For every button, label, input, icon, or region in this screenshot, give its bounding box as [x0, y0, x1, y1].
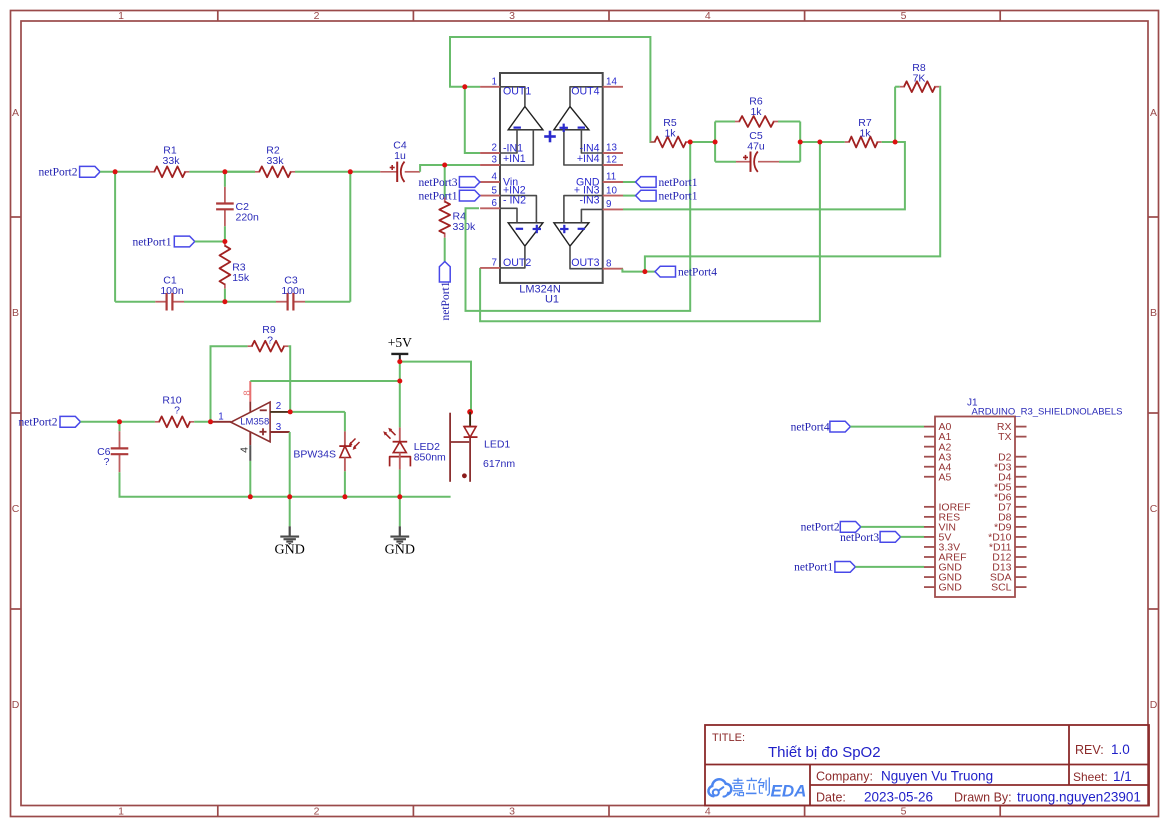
svg-text:33k: 33k: [163, 155, 181, 167]
R6C5 block left vertical: [714, 122, 716, 162]
svg-text:1.0: 1.0: [1111, 742, 1130, 757]
op-amp center plus sign: [544, 135, 556, 138]
svg-text:+5V: +5V: [388, 335, 412, 350]
U1 pin 1 OUT1: [480, 86, 500, 88]
svg-text:5: 5: [492, 185, 498, 196]
J1 pin A0 (left row 0): [924, 426, 935, 428]
svg-text:?: ?: [267, 335, 273, 347]
svg-text:GND: GND: [275, 543, 305, 558]
junction node V (+5V): [397, 359, 402, 364]
svg-text:33k: 33k: [267, 155, 285, 167]
svg-text:REV:: REV:: [1075, 743, 1104, 757]
svg-text:2: 2: [314, 806, 320, 818]
J1 pin D2 (right row 3): [1015, 456, 1027, 458]
capacitor C4 polarized: [380, 171, 397, 173]
U1 pin 6 - IN2: [480, 207, 500, 209]
junction node E (R2/C4): [348, 169, 353, 174]
svg-text:7: 7: [492, 258, 497, 269]
junction node J (block right): [798, 140, 803, 145]
LM358 pin 8 stub (V+): [249, 381, 251, 402]
svg-text:EDA: EDA: [771, 782, 807, 801]
svg-text:1: 1: [492, 77, 497, 88]
svg-text:D: D: [12, 699, 20, 711]
junction node A: [113, 169, 118, 174]
U1 pin 13 -IN4: [603, 152, 623, 154]
svg-text:1k: 1k: [750, 106, 762, 118]
svg-text:2: 2: [492, 143, 497, 154]
svg-text:2: 2: [276, 401, 281, 412]
wire +5V down: [399, 362, 401, 428]
resistor R3: [224, 242, 226, 247]
wire node B to R2: [225, 171, 255, 173]
capacitor C6: [119, 431, 121, 448]
svg-text:netPort4: netPort4: [678, 266, 717, 278]
op-amp C (OUT3) triangle: [554, 223, 589, 246]
wire pin8 to +5V rail: [250, 380, 399, 382]
wire pin2 to BPW34S: [290, 411, 345, 413]
netPort1 port (pin5 +IN2): [459, 190, 480, 201]
svg-text:A: A: [1150, 107, 1157, 119]
svg-text:2023-05-26: 2023-05-26: [864, 790, 933, 805]
op-amp D plus sign: [560, 127, 568, 129]
svg-text:1: 1: [218, 411, 223, 422]
svg-text:4: 4: [492, 172, 498, 183]
op-amp A (OUT1) triangle: [508, 107, 543, 130]
svg-text:47u: 47u: [747, 141, 765, 153]
svg-text:OUT4: OUT4: [571, 86, 599, 98]
netPort3 port (pin4 Vin): [459, 177, 480, 188]
svg-text:LED1: LED1: [484, 439, 510, 451]
resistor R1: [150, 171, 155, 173]
svg-text:Drawn By:: Drawn By:: [954, 791, 1012, 805]
resistor R2: [255, 171, 260, 173]
U1 pin 8 OUT3: [603, 268, 623, 270]
svg-text:B: B: [12, 307, 19, 319]
wire R9 right vertical to pin2: [288, 346, 290, 412]
J1 pin RX (right row 0): [1015, 426, 1027, 428]
U1 pin 5 +IN2: [480, 195, 500, 197]
svg-text:9: 9: [606, 199, 611, 210]
junction node T (pin4/rail): [248, 494, 253, 499]
op-amp B (OUT2) triangle: [508, 223, 543, 246]
ground symbol 2: [399, 497, 401, 527]
U1 pin 11 GND: [603, 181, 623, 183]
LM358 pin 2 stub: [270, 411, 290, 413]
resistor R10: [155, 421, 160, 423]
op-amp B minus sign: [516, 228, 523, 230]
wire node L to pin9 net: [623, 142, 905, 209]
wire netPort4 to A0: [850, 426, 924, 428]
netPort1 port (below R4, rotated): [439, 262, 450, 283]
svg-text:netPort1: netPort1: [133, 236, 172, 248]
J1 pin *D11 (right row 12): [1015, 546, 1027, 548]
netPort4 port (OUT3): [655, 266, 676, 277]
U1 pin 12 +IN4: [603, 164, 623, 166]
netPort1 port (pin10 +IN3): [623, 195, 636, 197]
svg-text:7K: 7K: [913, 73, 926, 85]
wire netPort2 to VIN: [861, 526, 924, 528]
J1 pin GND (left row 15): [924, 576, 935, 578]
J1 pin D12 (right row 13): [1015, 556, 1027, 558]
svg-text:netPort1: netPort1: [794, 562, 833, 574]
op-amp D (OUT4) triangle: [554, 107, 589, 130]
svg-text:OUT2: OUT2: [503, 257, 531, 269]
wire bottom rail left: [115, 301, 155, 303]
wire netPort1 to node: [195, 241, 225, 243]
svg-text:3: 3: [276, 422, 282, 433]
svg-text:D: D: [1150, 699, 1158, 711]
netPort1 port (pin11 GND): [623, 181, 636, 183]
capacitor C1: [155, 301, 166, 303]
J1 pin *D10 (right row 11): [1015, 536, 1027, 538]
J1 pin 3.3V (left row 12): [924, 546, 935, 548]
svg-text:14: 14: [606, 77, 617, 88]
J1 pin *D9 (right row 10): [1015, 526, 1027, 528]
resistor R8: [900, 86, 905, 88]
connector J1 body: [935, 417, 1015, 598]
netPort2 port (top left): [80, 166, 101, 177]
svg-text:10: 10: [606, 185, 617, 196]
svg-text:6: 6: [492, 198, 498, 209]
svg-text:617nm: 617nm: [483, 458, 515, 470]
wire LED2 to rail: [399, 470, 401, 497]
wire right vertical up: [349, 172, 351, 302]
junction node H (R5 right): [688, 140, 693, 145]
LED LED1: [467, 409, 473, 415]
svg-text:4: 4: [705, 806, 711, 818]
svg-text:?: ?: [174, 405, 180, 417]
junction node K (OUT2 feedback): [817, 140, 822, 145]
wire netPort2 to R1: [100, 171, 150, 173]
wire R6 top left: [715, 121, 735, 123]
resistor R5: [650, 141, 655, 143]
op-amp C plus sign: [560, 228, 568, 230]
svg-text:5: 5: [901, 806, 907, 818]
wire rail C3 to right vertical: [305, 301, 350, 303]
J1 pin VIN (left row 10): [924, 526, 935, 528]
wire C4 to +IN1 node: [420, 165, 480, 172]
wire netPort1 to GND: [855, 566, 924, 568]
wire left vertical down to C1 rail: [114, 172, 116, 302]
capacitor C2: [224, 187, 226, 204]
U1 pin 10 + IN3: [603, 195, 623, 197]
svg-text:LM358: LM358: [240, 417, 269, 428]
wire R6 top right: [778, 121, 800, 123]
svg-text:11: 11: [606, 172, 616, 183]
svg-text:Date:: Date:: [816, 791, 846, 805]
svg-text:Company:: Company:: [816, 770, 873, 784]
wire rail C1 to C3: [184, 301, 276, 303]
svg-text:ARDUINO_R3_SHIELDNOLABELS: ARDUINO_R3_SHIELDNOLABELS: [972, 407, 1123, 418]
resistor R6: [735, 121, 740, 123]
resistor R4: [444, 165, 446, 197]
J1 pin AREF (left row 13): [924, 556, 935, 558]
svg-text:C: C: [12, 503, 20, 515]
wire R1 to C2 node: [189, 171, 255, 173]
wire OUT1 feedback loop: [450, 37, 654, 142]
svg-text:+IN1: +IN1: [503, 153, 526, 165]
wire +5V to LED1: [400, 362, 471, 412]
junction node M (OUT3): [642, 269, 647, 274]
EasyEDA logo: [708, 779, 731, 796]
op-amp A minus sign: [514, 126, 521, 128]
svg-text:+IN4: +IN4: [577, 153, 600, 165]
J1 pin A1 (left row 1): [924, 436, 935, 438]
svg-text:netPort2: netPort2: [39, 167, 78, 179]
J1 pin A4 (left row 4): [924, 466, 935, 468]
J1 pin IOREF (left row 8): [924, 506, 935, 508]
J1 pin D8 (right row 9): [1015, 516, 1027, 518]
LM358 minus sign: [260, 409, 267, 411]
J1 pin SDA (right row 15): [1015, 576, 1027, 578]
J1 pin TX (right row 1): [1015, 436, 1027, 438]
svg-text:?: ?: [104, 456, 110, 468]
svg-text:850nm: 850nm: [414, 452, 446, 464]
svg-text:5: 5: [901, 10, 907, 22]
LED LED2: [399, 427, 401, 441]
U1 pin 14 OUT4: [603, 86, 623, 88]
op-amp C minus sign: [578, 228, 585, 230]
svg-text:100n: 100n: [281, 285, 305, 297]
wire node E to C4: [350, 171, 380, 173]
svg-text:B: B: [1150, 307, 1157, 319]
J1 pin *D3 (right row 4): [1015, 466, 1027, 468]
svg-text:netPort2: netPort2: [801, 522, 840, 534]
svg-text:Sheet:: Sheet:: [1073, 770, 1108, 784]
svg-text:1k: 1k: [859, 128, 871, 140]
resistor R7: [845, 141, 850, 143]
svg-text:A5: A5: [939, 471, 952, 483]
resistor R9: [248, 345, 253, 347]
svg-text:8: 8: [606, 258, 612, 269]
junction node I (block left): [713, 140, 718, 145]
junction node U (LED2/rail): [397, 494, 402, 499]
svg-text:330k: 330k: [453, 221, 477, 233]
LM358 pin 1 stub: [211, 421, 231, 423]
junction node G (pin1): [462, 84, 467, 89]
wire BPW34S top: [344, 412, 346, 432]
U1 pin 7 OUT2: [480, 267, 500, 269]
svg-text:GND: GND: [385, 543, 415, 558]
J1 pin SCL (right row 16): [1015, 586, 1027, 588]
svg-text:4: 4: [239, 447, 251, 453]
J1 pin *D6 (right row 7): [1015, 496, 1027, 498]
wire C6 bottom to rail: [120, 472, 156, 497]
svg-text:13: 13: [606, 143, 617, 154]
op-amp U1 chip body: [500, 73, 603, 283]
svg-text:SCL: SCL: [991, 582, 1012, 594]
junction node R (BPW34S/rail): [342, 494, 347, 499]
svg-text:BPW34S: BPW34S: [293, 449, 336, 461]
svg-text:netPort1: netPort1: [440, 281, 452, 320]
J1 pin RES (left row 9): [924, 516, 935, 518]
LM358 pin 4 stub (V-): [249, 432, 251, 445]
wire pin1 stub link: [465, 86, 480, 88]
wire C2 bottom to netPort1 node: [224, 226, 226, 241]
junction node B (R1/R2/C2): [222, 169, 227, 174]
svg-text:100n: 100n: [160, 285, 184, 297]
junction node S (pin3/rail): [287, 494, 292, 499]
wire R8 right to OUT3 net: [645, 87, 940, 272]
svg-text:OUT1: OUT1: [503, 86, 531, 98]
svg-text:netPort3: netPort3: [840, 532, 879, 544]
op-amp U2 LM358 triangle: [231, 402, 270, 442]
wire C5 bottom left: [715, 161, 736, 163]
svg-text:1k: 1k: [664, 128, 676, 140]
netPort1 port (mid left): [174, 236, 195, 247]
svg-text:Thiết bị đo SpO2: Thiết bị đo SpO2: [768, 744, 881, 761]
capacitor C3: [276, 301, 288, 303]
svg-text:1/1: 1/1: [1113, 769, 1132, 784]
wire netPort2 to R10: [81, 421, 155, 423]
svg-text:4: 4: [705, 10, 711, 22]
J1 pin A2 (left row 2): [924, 446, 935, 448]
wire netPort3 to 5V: [901, 536, 924, 538]
wire pin3 down to rail: [289, 432, 291, 497]
svg-text:1: 1: [118, 806, 124, 818]
wire block to node K: [800, 141, 820, 143]
J1 pin GND (left row 14): [924, 566, 935, 568]
svg-text:Nguyen Vu Truong: Nguyen Vu Truong: [881, 769, 993, 784]
wire R7 to node L: [882, 141, 895, 143]
svg-text:-IN3: -IN3: [579, 195, 599, 207]
svg-text:1u: 1u: [394, 150, 406, 162]
op-amp D minus sign: [578, 126, 585, 128]
J1 pin GND (left row 16): [924, 586, 935, 588]
wire pin6 net vertical: [466, 142, 691, 311]
junction node D (R3/rail): [222, 299, 227, 304]
netPort2 port (LM358 input): [60, 416, 81, 427]
wire C6 top: [119, 422, 121, 431]
J1 pin D7 (right row 8): [1015, 506, 1027, 508]
wire OUT2 net: [480, 142, 820, 321]
svg-text:TX: TX: [998, 431, 1011, 443]
wire OUT3 to netPort4: [622, 269, 655, 272]
LM358 pin 3 stub: [270, 431, 290, 433]
junction node N (C6): [117, 419, 122, 424]
svg-text:15k: 15k: [232, 272, 250, 284]
U1 pin 4 Vin: [480, 181, 500, 183]
U1 pin 9 -IN3: [603, 208, 623, 210]
wire ground rail: [155, 496, 451, 498]
junction node O (R9/R10/pin1): [208, 419, 213, 424]
U1 pin 2 -IN1: [480, 152, 500, 154]
J1 pin A5 (left row 5): [924, 476, 935, 478]
svg-text:220n: 220n: [236, 212, 260, 224]
svg-text:U1: U1: [545, 294, 559, 306]
svg-text:8: 8: [242, 390, 253, 395]
wire pin4 to rail: [249, 461, 251, 497]
wire pin1 node to pin2: [465, 87, 480, 153]
LM358 plus sign: [260, 431, 267, 433]
junction node C (C2/R3): [222, 239, 227, 244]
op-amp B plus sign: [533, 228, 541, 230]
ground symbol 1: [289, 497, 291, 527]
svg-text:OUT3: OUT3: [571, 257, 599, 269]
svg-text:2: 2: [314, 10, 320, 22]
U1 pin 3 +IN1: [480, 164, 500, 166]
svg-text:12: 12: [606, 155, 617, 166]
wire node L up to R8: [894, 87, 896, 142]
junction node Q (pin2): [288, 409, 293, 414]
wire C5 bottom right: [779, 161, 800, 163]
svg-text:A: A: [12, 107, 19, 119]
svg-text:TITLE:: TITLE:: [712, 732, 745, 744]
J1 pin A3 (left row 3): [924, 456, 935, 458]
R6C5 block right vertical: [799, 122, 801, 162]
svg-text:C: C: [1150, 503, 1158, 515]
svg-text:3: 3: [509, 806, 515, 818]
junction node F (+IN1/R4): [442, 163, 447, 168]
title block outline: [705, 725, 1149, 806]
svg-text:- IN2: - IN2: [503, 195, 526, 207]
wire C2 top: [224, 172, 226, 187]
wire R2 to node E: [295, 171, 350, 173]
capacitor C5 polarized: [736, 161, 751, 163]
svg-text:netPort2: netPort2: [19, 417, 58, 429]
svg-text:netPort1: netPort1: [419, 190, 458, 202]
svg-text:truong.nguyen23901: truong.nguyen23901: [1017, 790, 1141, 805]
junction node L (R7/R8/pin9): [893, 140, 898, 145]
J1 pin *D5 (right row 6): [1015, 486, 1027, 488]
svg-text:3: 3: [492, 155, 498, 166]
svg-text:3: 3: [509, 10, 515, 22]
svg-text:netPort3: netPort3: [419, 177, 458, 189]
svg-text:1: 1: [118, 10, 124, 22]
wire R10 to node O: [194, 421, 210, 423]
svg-text:GND: GND: [939, 582, 963, 594]
wire BPW34S to rail: [344, 471, 346, 497]
wire node K to R7: [820, 141, 845, 143]
junction node P (+5V/pin8): [397, 379, 402, 384]
wire R5 to R6C5 block: [690, 141, 715, 143]
J1 pin D13 (right row 14): [1015, 566, 1027, 568]
photodiode BPW34S: [344, 431, 346, 446]
J1 pin 5V (left row 11): [924, 536, 935, 538]
wire R9 left vertical: [211, 346, 248, 422]
J1 pin D4 (right row 5): [1015, 476, 1027, 478]
svg-text:netPort1: netPort1: [659, 190, 698, 202]
svg-text:netPort1: netPort1: [659, 177, 698, 189]
svg-text:netPort4: netPort4: [791, 421, 830, 433]
